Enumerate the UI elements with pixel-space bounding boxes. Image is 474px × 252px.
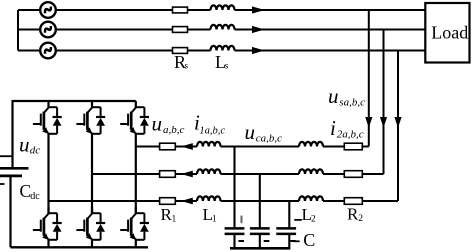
wire riser b (grid tap) <box>383 30 385 175</box>
inductor L2 line 1 <box>299 142 323 147</box>
AC source phase c <box>40 43 56 59</box>
resistor R1 line 2 <box>160 171 176 178</box>
wire phase b (source to Load) <box>18 29 426 31</box>
svg-text:2a,b,c: 2a,b,c <box>337 128 364 140</box>
wire inverter line 2 <box>92 173 384 175</box>
svg-text:u: u <box>328 84 339 108</box>
svg-text:s: s <box>225 61 229 71</box>
svg-text:1a,b,c: 1a,b,c <box>199 126 225 137</box>
arrow i1 line 1 <box>181 143 193 150</box>
load box <box>425 3 469 63</box>
arrow i2 phase b <box>380 117 387 128</box>
inductor L1 line 3 <box>197 196 221 201</box>
resistor Rs phase a <box>173 7 188 13</box>
dc- bus wire <box>11 246 149 248</box>
wire inverter line 1 <box>136 146 369 148</box>
wire leg3 midpoint <box>135 134 137 214</box>
svg-text:1: 1 <box>212 215 217 225</box>
faint subscript 1 near cap1 <box>241 216 243 224</box>
label L2 with leader dash <box>294 205 316 225</box>
svg-text:dc: dc <box>30 145 41 157</box>
IGBT+diode upper leg1 (S1) <box>33 101 62 134</box>
svg-text:sa,b,c: sa,b,c <box>339 97 365 109</box>
arrow i2 phase a <box>365 117 372 128</box>
resistor R1 line 1 <box>160 143 176 150</box>
svg-text:R: R <box>347 204 359 223</box>
current arrow phase c <box>252 47 265 54</box>
inductor L2 line 2 <box>299 169 323 174</box>
IGBT+diode upper leg2 (S3) <box>76 101 105 134</box>
IGBT+diode upper leg3 (S5) <box>120 101 149 134</box>
wire phase c (source to Load) <box>18 50 426 52</box>
svg-text:1: 1 <box>172 215 177 225</box>
inductor Ls phase b <box>211 25 235 30</box>
AC source phase a <box>40 2 56 18</box>
AC source phase b <box>40 22 56 38</box>
udc minus mark <box>0 183 5 185</box>
current arrow phase a <box>252 6 265 13</box>
inductor L2 line 3 <box>299 196 323 201</box>
capacitor C phase 2 with tap wire <box>250 174 270 248</box>
resistor Rs phase c <box>173 48 188 54</box>
wire phase a (source to Load) <box>18 9 426 11</box>
svg-text:u: u <box>152 111 163 135</box>
svg-text:u: u <box>19 133 30 157</box>
inductor Ls phase c <box>211 46 235 51</box>
wire inverter line 3 <box>49 200 399 202</box>
wire leg2 midpoint <box>91 134 93 214</box>
IGBT+diode lower leg1 (S4) <box>33 207 62 240</box>
arrow i1 line 3 <box>181 198 193 205</box>
inductor Ls phase a <box>211 5 235 10</box>
svg-text:2: 2 <box>358 214 363 224</box>
svg-text:dc: dc <box>30 191 40 202</box>
IGBT+diode lower leg2 (S6) <box>76 207 105 240</box>
svg-text:2: 2 <box>311 215 316 225</box>
svg-text:u: u <box>245 120 256 144</box>
label C with leader dash <box>294 230 315 250</box>
left neutral bus wire <box>17 10 19 51</box>
svg-text:i: i <box>330 116 336 140</box>
svg-text:s: s <box>185 61 189 71</box>
arrow i1 line 2 <box>181 171 193 178</box>
wire leg1 midpoint <box>47 134 49 214</box>
svg-text:Load: Load <box>431 23 468 43</box>
wire riser c (grid tap) <box>397 51 399 202</box>
capacitor C phase 3 with tap wire <box>276 201 296 248</box>
dc- left rail wire <box>9 176 11 247</box>
svg-text:ca,b,c: ca,b,c <box>256 132 282 144</box>
svg-text:C: C <box>303 230 315 250</box>
resistor R2 line 2 <box>344 171 362 178</box>
wire leg1 emitter to dc- bus <box>47 240 49 248</box>
resistor R2 line 3 <box>344 198 362 205</box>
IGBT+diode lower leg3 (S2) <box>120 207 149 240</box>
resistor Rs phase b <box>173 27 188 33</box>
wire riser a (grid tap) <box>368 10 370 147</box>
resistor R2 line 1 <box>344 143 362 150</box>
capacitor bottom bus wire <box>230 247 290 250</box>
dc link left rail wire <box>11 100 13 167</box>
wire leg3 emitter to dc- bus <box>135 240 137 248</box>
capacitor C phase 1 with tap wire <box>225 147 245 249</box>
arrow i2 phase c <box>394 117 401 128</box>
wire leg2 emitter to dc- bus <box>91 240 93 248</box>
inductor L1 line 1 <box>197 142 221 147</box>
svg-text:a,b,c: a,b,c <box>163 124 185 136</box>
capacitor Cdc top plate <box>0 167 29 170</box>
inductor L1 line 2 <box>197 169 221 174</box>
resistor R1 line 3 <box>160 198 176 205</box>
current arrow phase b <box>252 26 265 33</box>
udc plus mark <box>0 155 13 157</box>
dc+ bus wire <box>13 100 136 102</box>
capacitor Cdc bottom plate <box>0 175 22 178</box>
